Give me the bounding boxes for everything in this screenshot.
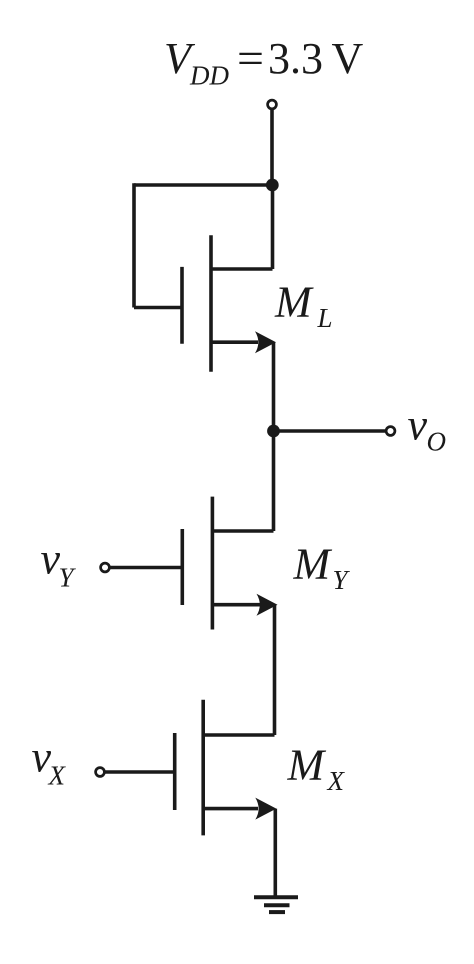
wire node vO to M_Y drain — [272, 431, 276, 531]
wire node vO to output terminal — [274, 429, 386, 433]
wire M_X source to ground — [273, 809, 277, 897]
svg-text:DD: DD — [189, 61, 229, 91]
terminal VDD — [268, 100, 277, 109]
transistor M_Y — [182, 497, 277, 630]
wire VDD terminal to node A — [270, 109, 274, 185]
svg-text:M: M — [287, 741, 327, 790]
svg-text:Y: Y — [333, 565, 351, 595]
label M_X — [287, 741, 346, 797]
ground — [254, 897, 298, 912]
svg-text:3.3: 3.3 — [268, 34, 323, 83]
svg-text:=: = — [237, 34, 264, 83]
transistor M_L — [182, 235, 276, 371]
svg-text:X: X — [48, 761, 67, 791]
wire gate loop bottom to M_L gate — [134, 306, 182, 310]
node A junction dot — [266, 179, 279, 192]
svg-text:M: M — [274, 278, 314, 327]
wire node A to M_L drain — [271, 185, 275, 269]
label M_Y — [293, 540, 351, 596]
svg-text:M: M — [293, 540, 333, 589]
wire vY terminal to M_Y gate — [110, 566, 183, 570]
label vO — [408, 401, 447, 457]
terminal vO — [386, 427, 395, 436]
terminal vY — [101, 563, 110, 572]
wire node A to gate loop top — [134, 183, 272, 187]
svg-text:O: O — [427, 427, 447, 457]
svg-text:v: v — [41, 535, 61, 584]
wire vX terminal to M_X gate — [105, 770, 175, 774]
wire M_L source to node vO — [272, 342, 276, 431]
label vX — [32, 733, 67, 791]
label VDD = 3.3 V — [164, 34, 364, 91]
terminal vX — [96, 768, 105, 777]
node vO junction dot — [267, 425, 280, 438]
label vY — [41, 535, 77, 593]
wire M_Y source to M_X drain — [273, 605, 277, 735]
svg-text:X: X — [327, 766, 346, 796]
svg-text:Y: Y — [59, 563, 77, 593]
svg-text:L: L — [317, 303, 333, 333]
svg-text:V: V — [332, 34, 364, 83]
label M_L — [274, 278, 333, 334]
wire gate loop left vertical — [132, 183, 136, 307]
svg-text:v: v — [408, 401, 428, 450]
transistor M_X — [175, 700, 277, 836]
